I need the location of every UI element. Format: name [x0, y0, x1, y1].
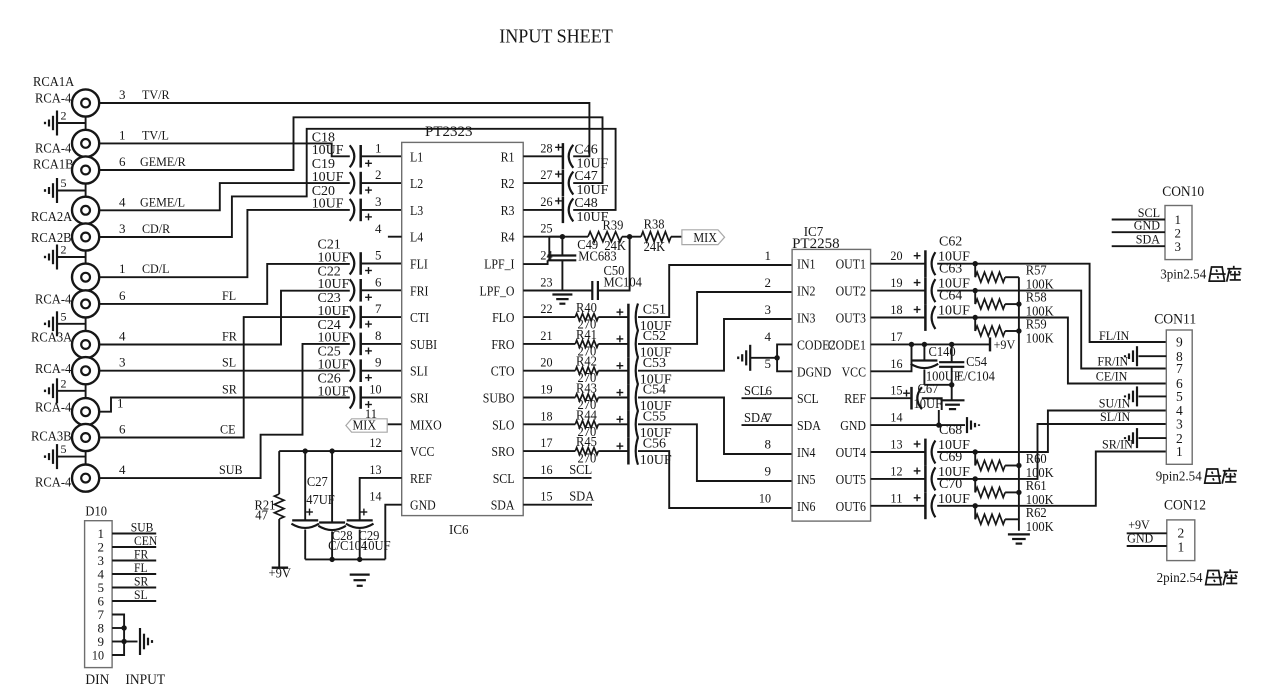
svg-text:19: 19 — [540, 382, 552, 397]
svg-text:2: 2 — [375, 167, 382, 182]
wire C50 to R38 node — [598, 237, 630, 291]
resistor R44 270 — [523, 407, 598, 439]
label RCA1B #4 — [33, 157, 74, 172]
IC6 pin number 24 right — [540, 248, 553, 263]
CON11 pin number 7 — [1176, 361, 1183, 376]
wire ground rail right — [1016, 277, 1021, 531]
svg-text:5: 5 — [375, 248, 382, 263]
wire ground rail bottom — [305, 557, 385, 562]
ground RCA group 4 — [45, 309, 86, 336]
svg-text:VCC: VCC — [410, 444, 435, 459]
wire CD/R — [99, 129, 615, 237]
D10 pin number 1 — [98, 526, 105, 541]
svg-text:9pin2.54: 9pin2.54 — [1156, 470, 1202, 485]
svg-text:DGND: DGND — [797, 364, 831, 379]
svg-text:VCC: VCC — [842, 364, 867, 379]
svg-text:CE/IN: CE/IN — [1096, 369, 1128, 384]
wire C55 to IC7 — [638, 424, 792, 481]
RCA jack circle 2 — [72, 130, 99, 157]
wire CE — [99, 317, 350, 437]
svg-text:L4: L4 — [410, 230, 424, 245]
svg-text:20: 20 — [540, 355, 552, 370]
svg-text:10UF: 10UF — [640, 453, 672, 468]
svg-text:R4: R4 — [501, 230, 515, 245]
svg-text:SLO: SLO — [492, 417, 514, 432]
label CON11 — [1154, 312, 1196, 328]
capacitor C21 10UF — [318, 238, 402, 275]
svg-text:7: 7 — [766, 410, 773, 425]
svg-text:FL: FL — [222, 288, 236, 303]
IC6 pin number 4 and stub — [375, 221, 402, 237]
svg-text:SCL: SCL — [797, 391, 819, 406]
IC6 pin name REF — [410, 471, 432, 486]
capacitor C51 10UF — [598, 302, 672, 334]
IC6 pin number 3 left — [375, 194, 382, 209]
svg-text:SL/IN: SL/IN — [1100, 409, 1131, 424]
IC7 pin number 18 — [890, 302, 902, 317]
wire D10 SUB — [112, 520, 156, 534]
wire GEME/L — [99, 183, 350, 210]
svg-text:R39: R39 — [603, 218, 624, 233]
wire FR/IN wire — [937, 288, 1166, 369]
RCA jack circle 10 — [72, 398, 99, 425]
IC6 pin number 26 right — [540, 194, 553, 209]
svg-text:MIXO: MIXO — [410, 417, 442, 432]
svg-text:C62: C62 — [939, 235, 962, 250]
svg-text:R43: R43 — [576, 381, 597, 396]
label CON10 — [1162, 184, 1204, 200]
wire SL — [99, 370, 350, 372]
ground RCA group 5 — [45, 376, 86, 403]
IC6 pin number 15 right — [540, 489, 552, 504]
capacitor C64 10UF — [871, 289, 971, 331]
svg-text:12: 12 — [369, 435, 381, 450]
label SU/IN — [1099, 396, 1131, 411]
ground rail right — [1008, 534, 1030, 543]
IC7 pin name OUT1 — [836, 257, 866, 272]
svg-text:C54: C54 — [966, 354, 987, 369]
capacitor C27 47UF — [291, 451, 335, 559]
svg-text:L1: L1 — [410, 149, 423, 164]
svg-text:IC6: IC6 — [449, 523, 469, 538]
svg-text:12: 12 — [890, 463, 902, 478]
svg-text:10: 10 — [92, 647, 104, 662]
IC6 pin number 6 left — [375, 274, 382, 289]
IC6 pin name R3 — [501, 203, 515, 218]
IC7 pin name GND — [840, 418, 866, 433]
IC7 pin number 5 — [765, 356, 772, 371]
ground bottom middle — [350, 575, 370, 586]
RCA jack circle 7 — [72, 290, 99, 317]
svg-text:L3: L3 — [410, 203, 424, 218]
D10 pin number 7 — [98, 607, 105, 622]
resistor R42 270 — [523, 354, 598, 386]
op-amp IC7 PT2258 box — [792, 249, 871, 521]
resistor R43 270 — [523, 381, 598, 413]
IC7 pin number 12 — [890, 463, 902, 478]
svg-text:10UF: 10UF — [312, 197, 344, 212]
label pin4 SUB — [119, 462, 243, 477]
CON11 pin number 9 — [1176, 335, 1183, 350]
IC7 pin number 3 — [765, 302, 772, 317]
svg-text:2: 2 — [765, 275, 772, 290]
IC7 pin number 17 — [890, 329, 903, 344]
ground D10 — [140, 628, 152, 655]
svg-text:2: 2 — [61, 376, 67, 390]
svg-text:INPUT SHEET: INPUT SHEET — [499, 26, 613, 48]
svg-text:FR: FR — [222, 329, 237, 344]
wire C52 to IC7 — [638, 292, 792, 344]
D10 pin number 9 — [98, 634, 105, 649]
wire CE/IN wire — [937, 315, 1166, 384]
resistor R58 100K — [975, 290, 1054, 319]
svg-text:C27: C27 — [307, 474, 328, 489]
IC7 pin number 15 — [890, 383, 902, 398]
svg-text:3: 3 — [765, 302, 772, 317]
wire C67 to ground — [922, 398, 942, 410]
IC6 pin name L4 — [410, 230, 424, 245]
IC7 pin name IN6 — [797, 499, 816, 514]
IC7 pin name DGND — [797, 364, 831, 379]
label RCA3A #8 — [31, 329, 72, 344]
svg-text:3: 3 — [119, 221, 126, 236]
capacitor C50 MC104 — [592, 263, 642, 300]
svg-text:100K: 100K — [1026, 331, 1054, 346]
IC6 pin number 10 left — [369, 382, 381, 397]
IC6 pin number 23 right — [540, 274, 552, 289]
svg-text:SUBO: SUBO — [483, 391, 515, 406]
svg-text:RCA3A: RCA3A — [31, 329, 72, 344]
capacitor C55 10UF — [598, 410, 672, 442]
svg-text:4: 4 — [765, 329, 772, 344]
IC6 pin name SCL — [493, 471, 515, 486]
capacitor C19 10UF — [312, 157, 402, 194]
IC7 pin name SCL — [797, 391, 819, 406]
svg-text:CODE1: CODE1 — [828, 337, 866, 352]
IC7 pin name OUT6 — [836, 499, 867, 514]
ground GND pin14 — [967, 417, 979, 433]
wire CD/L — [99, 210, 350, 277]
svg-text:16: 16 — [890, 356, 903, 371]
wire TV/L — [99, 143, 350, 156]
svg-text:5: 5 — [1176, 389, 1183, 404]
svg-text:C56: C56 — [643, 436, 666, 451]
RCA jack circle 9 — [72, 357, 99, 384]
svg-text:RCA-4: RCA-4 — [35, 400, 72, 415]
svg-text:R62: R62 — [1026, 505, 1047, 520]
IC6 pin number 17 right — [540, 435, 553, 450]
IC6 pin number 1 left — [375, 140, 382, 155]
svg-text:10UF: 10UF — [318, 250, 350, 265]
label INPUT — [125, 672, 165, 688]
wire SL/IN wire — [937, 424, 1166, 482]
IC6 pin number 11 — [365, 406, 377, 421]
CON11 pin number 3 — [1176, 417, 1183, 432]
svg-text:100K: 100K — [1026, 519, 1054, 534]
wire C54 to IC7 — [638, 398, 792, 455]
svg-text:IN4: IN4 — [797, 445, 816, 460]
IC7 pin name CODE1 — [828, 337, 866, 352]
svg-text:2: 2 — [1178, 526, 1185, 541]
svg-text:6: 6 — [119, 154, 126, 169]
IC7 pin name REF — [844, 391, 866, 406]
svg-text:3: 3 — [1175, 239, 1182, 254]
IC6 pin number 27 right — [540, 167, 553, 182]
svg-text:CON12: CON12 — [1164, 498, 1206, 514]
svg-text:2pin2.54: 2pin2.54 — [1157, 571, 1203, 586]
label IC7 — [804, 225, 824, 240]
svg-text:FL/IN: FL/IN — [1099, 328, 1130, 343]
wire IC6 SCL stub — [523, 462, 592, 478]
capacitor C67 10UF — [871, 381, 943, 411]
IC7 pin number 20 — [890, 248, 902, 263]
svg-text:FR/IN: FR/IN — [1097, 354, 1128, 369]
svg-text:4: 4 — [119, 194, 126, 209]
IC7 pin name OUT4 — [836, 445, 867, 460]
D10 pin number 4 — [98, 566, 105, 581]
wire cap ground node — [924, 382, 954, 400]
power +9V bottom — [269, 566, 292, 581]
label CON12 — [1164, 498, 1206, 514]
wire R38 to MIX flag — [671, 236, 682, 238]
svg-text:R61: R61 — [1026, 478, 1047, 493]
RCA jack circle 4 — [72, 197, 99, 224]
capacitor C63 10UF — [871, 262, 971, 304]
label FL/IN — [1099, 328, 1130, 343]
label PT2323 — [425, 124, 473, 140]
capacitor C24 10UF — [318, 318, 402, 355]
net flag MIX right — [682, 230, 725, 245]
IC7 pin number 10 — [759, 490, 771, 505]
svg-text:3: 3 — [1176, 417, 1183, 432]
svg-text:9: 9 — [375, 355, 382, 370]
svg-text:10UF: 10UF — [938, 492, 970, 507]
capacitor C47 10UF — [523, 169, 608, 198]
svg-text:IN3: IN3 — [797, 311, 816, 326]
svg-text:1: 1 — [1176, 444, 1183, 459]
svg-text:47UF: 47UF — [306, 492, 335, 507]
svg-text:C47: C47 — [574, 169, 597, 184]
label RCA-4 #7 — [35, 291, 72, 306]
svg-text:D10: D10 — [85, 504, 107, 519]
svg-text:CD/L: CD/L — [142, 261, 170, 276]
svg-text:10UF: 10UF — [312, 143, 344, 158]
svg-text:R45: R45 — [576, 434, 597, 449]
IC6 pin name SRO — [491, 444, 514, 459]
label CE/IN — [1096, 369, 1128, 384]
svg-text:FRI: FRI — [410, 283, 429, 298]
svg-text:10UF: 10UF — [938, 304, 970, 319]
IC6 pin number 22 right — [540, 301, 552, 316]
svg-text:6: 6 — [119, 288, 126, 303]
svg-text:10UF: 10UF — [318, 358, 350, 373]
IC7 pin name IN1 — [797, 257, 816, 272]
label pin1 TV/L — [119, 128, 169, 143]
IC6 pin name SDA — [491, 498, 515, 513]
wire D10 FL — [112, 561, 156, 575]
wire C56 to IC7 — [638, 451, 792, 508]
IC6 pin number 19 right — [540, 382, 552, 397]
wire FL/IN wire — [937, 261, 1166, 342]
IC6 pin number 20 right — [540, 355, 552, 370]
svg-text:C54: C54 — [643, 383, 666, 398]
svg-text:47: 47 — [255, 508, 268, 523]
svg-text:IN2: IN2 — [797, 284, 816, 299]
D10 pin number 2 — [98, 539, 105, 554]
svg-text:4: 4 — [375, 221, 382, 236]
svg-text:R59: R59 — [1026, 317, 1047, 332]
capacitor C28 C/C104 — [318, 451, 367, 559]
wire pin24 LPF_I — [523, 260, 547, 264]
RCA jack circle 11 — [72, 424, 99, 451]
svg-text:27: 27 — [540, 167, 553, 182]
RCA jack circle 6 — [72, 264, 99, 291]
capacitor C140 100UF — [911, 344, 962, 385]
IC6 pin name GND — [410, 498, 436, 513]
label SR/IN — [1102, 437, 1133, 452]
svg-text:OUT6: OUT6 — [836, 499, 867, 514]
svg-text:IN6: IN6 — [797, 499, 816, 514]
svg-text:SR: SR — [222, 382, 237, 397]
svg-text:17: 17 — [890, 329, 903, 344]
IC7 pin number 13 — [890, 437, 902, 452]
ground CODE2 — [738, 345, 750, 371]
RCA jack circle 8 — [72, 331, 99, 358]
IC6 pin name SLO — [492, 417, 514, 432]
ground RCA group 6 — [45, 442, 86, 469]
IC6 pin name LPF_O — [480, 283, 515, 298]
wire CON12 +9V — [1127, 517, 1185, 540]
wire IC6 SDA stub — [523, 489, 594, 505]
CON11 pin number 8 — [1176, 349, 1183, 364]
wire FR — [99, 291, 350, 345]
CON11 pin number 2 — [1176, 431, 1183, 446]
resistor R38 24K — [641, 217, 671, 254]
svg-text:SUBI: SUBI — [410, 337, 437, 352]
IC6 pin number 8 left — [375, 328, 382, 343]
CON11 pin number 6 — [1176, 376, 1183, 391]
svg-text:SDA: SDA — [797, 418, 821, 433]
label RCA-4 #3 — [35, 140, 72, 155]
label pin6 GEME/R — [119, 154, 186, 169]
wire SUB — [99, 344, 350, 478]
wire CON10 GND — [1112, 218, 1181, 241]
svg-text:C51: C51 — [643, 302, 666, 317]
svg-text:9: 9 — [1176, 335, 1183, 350]
svg-text:RCA2A: RCA2A — [31, 209, 72, 224]
label DIN — [85, 672, 109, 688]
capacitor C18 10UF — [312, 130, 402, 167]
svg-text:SDA: SDA — [491, 498, 515, 513]
ground C140 C54 — [941, 400, 965, 409]
svg-text:21: 21 — [540, 328, 552, 343]
IC6 pin name FLO — [492, 310, 514, 325]
D10 pin number 5 — [98, 580, 105, 595]
svg-text:CD/R: CD/R — [142, 221, 171, 236]
IC6 pin number 12 left — [369, 435, 381, 450]
svg-text:REF: REF — [844, 391, 866, 406]
CON11 pin number 4 — [1176, 403, 1183, 418]
IC6 pin number 14 left — [369, 489, 382, 504]
D10 pin number 6 — [98, 593, 105, 608]
svg-text:RCA-4: RCA-4 — [35, 291, 72, 306]
label PT2258 — [792, 236, 840, 252]
IC7 pin number 19 — [890, 275, 902, 290]
svg-text:26: 26 — [540, 194, 553, 209]
resistor R41 270 — [523, 327, 598, 359]
svg-text:10UF: 10UF — [318, 304, 350, 319]
svg-text:R57: R57 — [1026, 263, 1047, 278]
capacitor C68 10UF — [871, 423, 971, 465]
svg-text:SUB: SUB — [131, 520, 154, 534]
IC6 pin number 18 right — [540, 408, 552, 423]
capacitor C52 10UF — [598, 329, 672, 361]
wire CON10 SCL — [1112, 205, 1181, 227]
wire RCA chain vertical — [85, 103, 87, 478]
label pin3 TV/R — [119, 87, 170, 102]
CON11 pin number 1 — [1176, 444, 1183, 459]
wire pin25 node — [523, 234, 588, 239]
capacitor C49 MC683 — [548, 237, 617, 264]
label pin3 SL — [119, 355, 236, 370]
label RCA-4 #10 — [35, 400, 72, 415]
ground CON11 pin2 — [1125, 428, 1137, 448]
label RCA1A #1 — [33, 74, 74, 89]
label pin6 FL — [119, 288, 236, 303]
svg-text:25: 25 — [540, 221, 552, 236]
svg-text:13: 13 — [890, 437, 902, 452]
svg-text:R1: R1 — [501, 149, 515, 164]
svg-text:4: 4 — [119, 329, 126, 344]
svg-text:C53: C53 — [643, 356, 666, 371]
svg-text:OUT4: OUT4 — [836, 445, 867, 460]
svg-text:R60: R60 — [1026, 451, 1047, 466]
IC6 pin name LPF_I — [484, 257, 514, 272]
IC6 pin number 2 left — [375, 167, 382, 182]
svg-text:R58: R58 — [1026, 290, 1047, 305]
svg-text:1: 1 — [119, 128, 126, 143]
capacitor C70 10UF — [871, 477, 971, 519]
resistor R60 100K — [975, 451, 1054, 480]
ground RCA group 2 — [45, 176, 86, 203]
svg-text:SRO: SRO — [491, 444, 514, 459]
svg-text:SL: SL — [222, 355, 236, 370]
svg-text:R2: R2 — [501, 176, 515, 191]
svg-text:+9V: +9V — [269, 566, 292, 581]
svg-text:SUB: SUB — [219, 462, 243, 477]
svg-text:5: 5 — [61, 309, 67, 323]
svg-text:CON11: CON11 — [1154, 312, 1196, 328]
svg-text:L2: L2 — [410, 176, 423, 191]
svg-text:C67: C67 — [918, 381, 939, 396]
svg-text:3pin2.54: 3pin2.54 — [1160, 268, 1206, 283]
svg-text:CEN: CEN — [134, 534, 157, 548]
svg-text:6: 6 — [766, 383, 773, 398]
svg-text:RCA-4: RCA-4 — [35, 140, 72, 155]
wire C51 to IC7 — [638, 265, 792, 317]
wire C53 to IC7 — [638, 319, 792, 371]
svg-text:10UF: 10UF — [312, 170, 344, 185]
svg-text:DIN: DIN — [85, 672, 109, 688]
svg-text:MC683: MC683 — [578, 248, 617, 263]
svg-text:RCA-4: RCA-4 — [35, 91, 72, 106]
svg-text:INPUT: INPUT — [125, 672, 165, 688]
svg-text:24K: 24K — [644, 239, 666, 254]
svg-text:15: 15 — [540, 489, 552, 504]
wire CON12 GND — [1127, 531, 1185, 555]
svg-text:11: 11 — [890, 490, 902, 505]
capacitor C54 E/C104 — [939, 344, 995, 384]
